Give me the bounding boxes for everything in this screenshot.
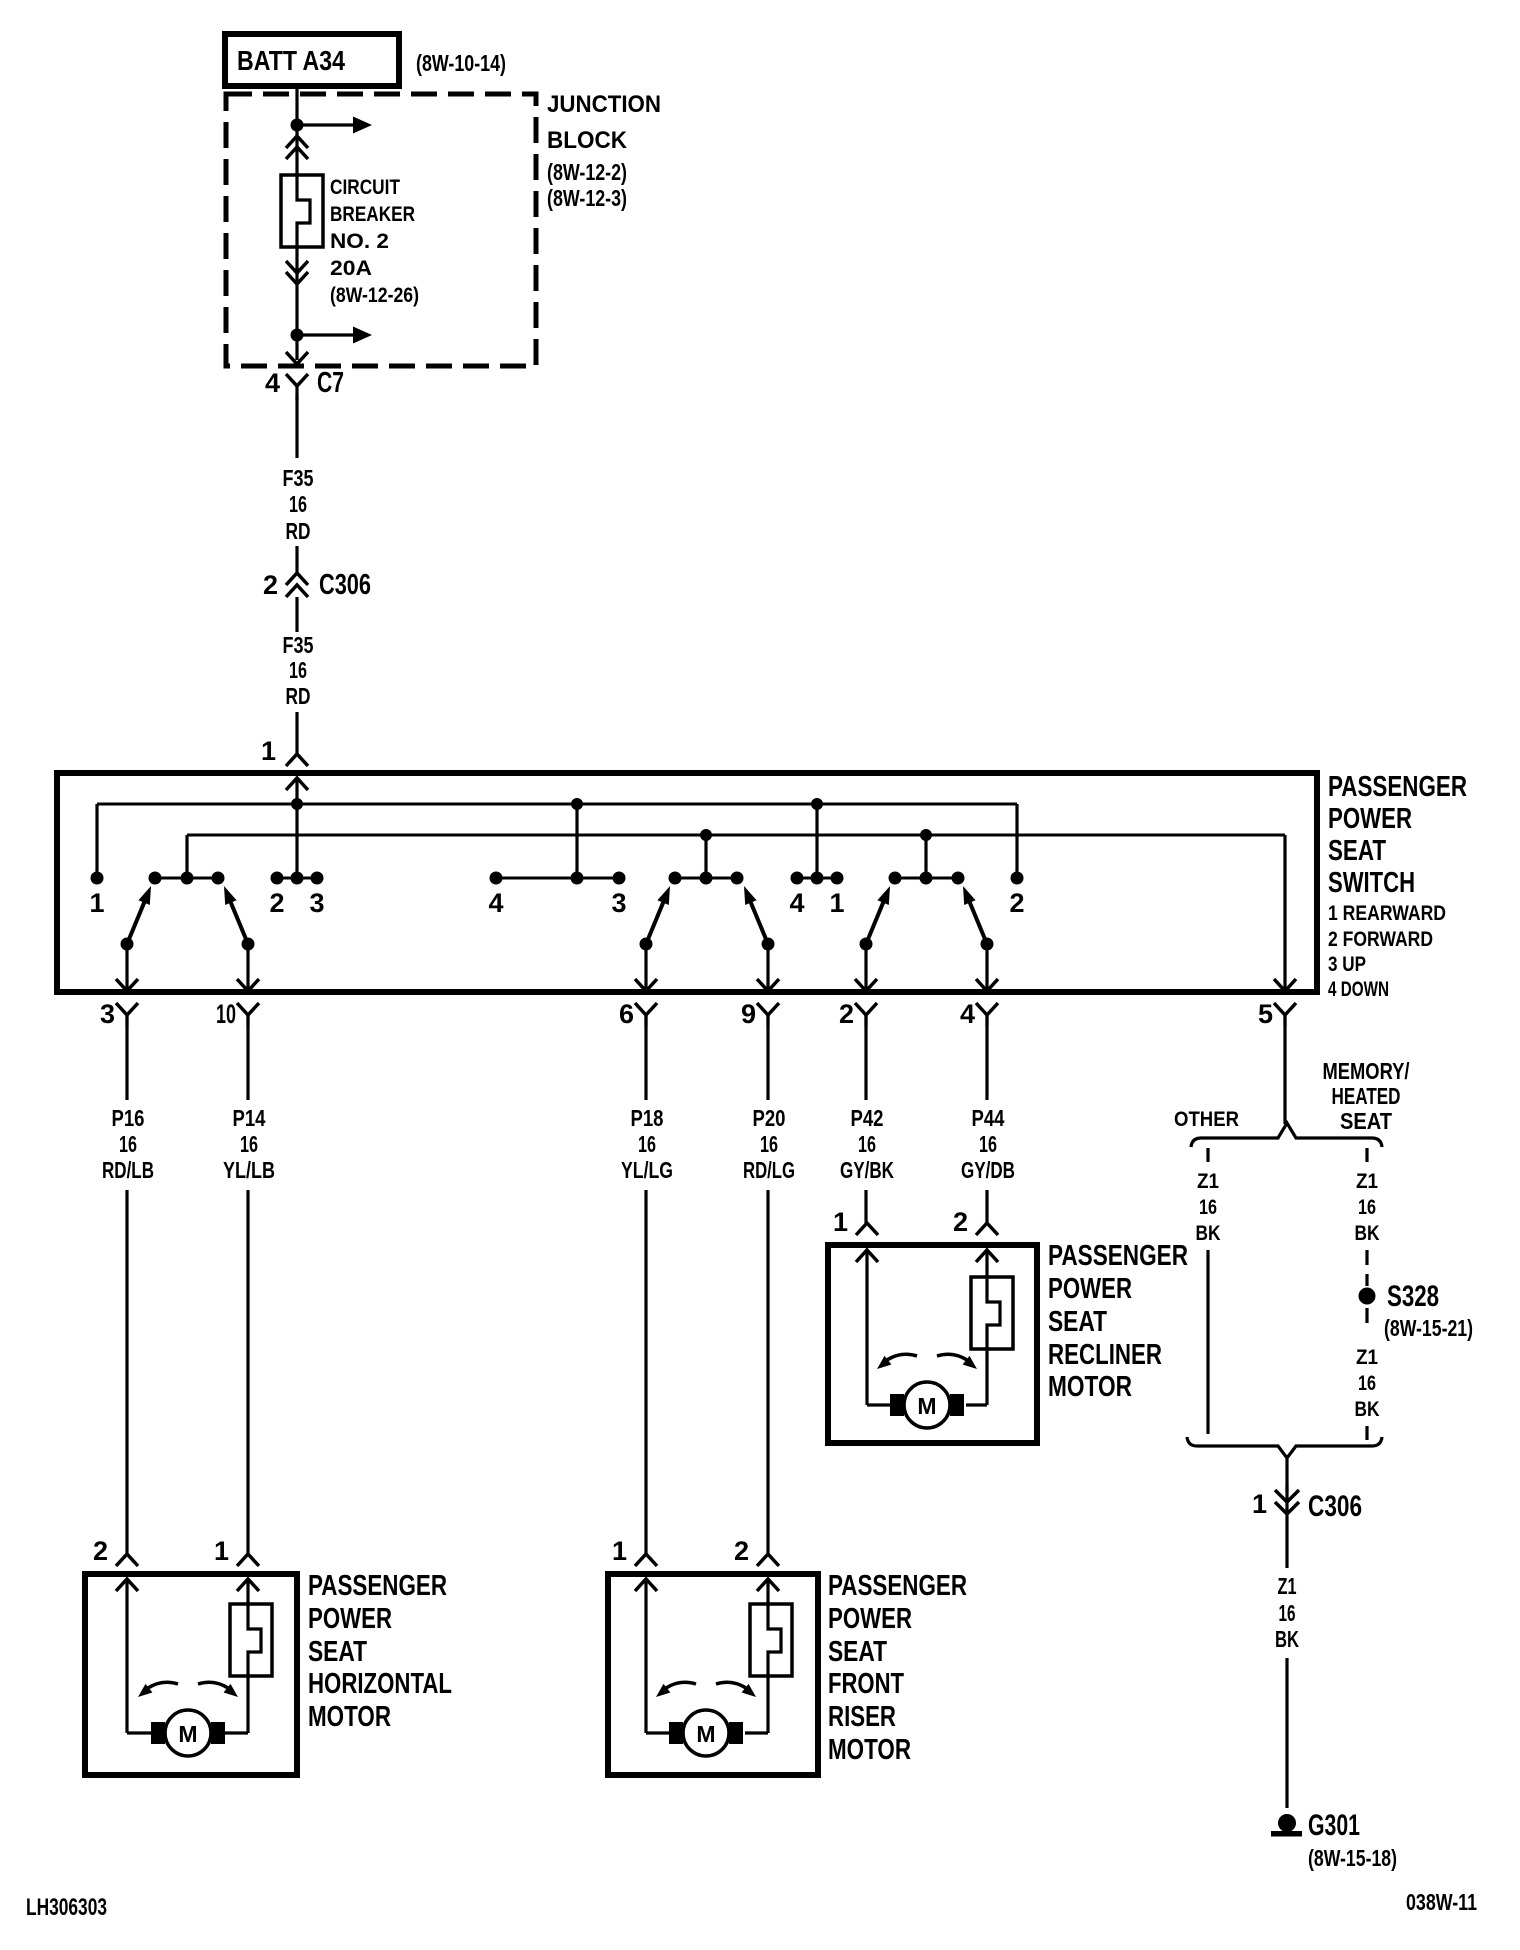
svg-text:BK: BK <box>1355 1398 1380 1421</box>
svg-text:1: 1 <box>89 888 104 918</box>
switch pin 10 exit chevron <box>237 979 259 991</box>
wire switch pin 5 to splice brace <box>1283 1015 1286 1124</box>
svg-text:2 FORWARD: 2 FORWARD <box>1328 928 1433 951</box>
wire wiper to switch pin 10 <box>246 948 249 990</box>
svg-text:2: 2 <box>263 570 278 600</box>
horizontal motor pin 1 entry chevron <box>237 1579 259 1591</box>
recliner motor rotation arrows <box>887 1354 917 1360</box>
svg-text:5: 5 <box>1258 999 1273 1029</box>
svg-text:SEAT: SEAT <box>308 1636 367 1668</box>
svg-text:1: 1 <box>829 888 844 918</box>
battery feed box BATT A34 <box>225 34 399 86</box>
horizontal motor M <box>165 1710 211 1756</box>
connector C306 pin 1 chevrons (down) <box>1275 1490 1299 1502</box>
svg-text:(8W-10-14): (8W-10-14) <box>416 50 506 76</box>
wire pin1 to bus A <box>295 778 298 878</box>
wire brace to C306 <box>1285 1458 1288 1492</box>
svg-text:M: M <box>178 1721 197 1747</box>
svg-text:OTHER: OTHER <box>1174 1108 1239 1131</box>
wire P14 16 YL/LB (upper segment) <box>246 1015 249 1100</box>
svg-text:BREAKER: BREAKER <box>330 203 415 226</box>
switch pin 3 fork <box>116 1003 138 1015</box>
svg-text:P44: P44 <box>972 1105 1005 1131</box>
svg-text:PASSENGER: PASSENGER <box>1328 771 1467 803</box>
svg-text:JUNCTION: JUNCTION <box>547 91 661 118</box>
wire Z1 16 BK (memory branch, dashed stub) <box>1365 1148 1368 1162</box>
wire P18 16 YL/LG (upper segment) <box>644 1015 647 1100</box>
svg-text:2: 2 <box>1009 888 1024 918</box>
svg-text:Z1: Z1 <box>1278 1573 1297 1599</box>
wire P42 16 GY/BK (upper segment) <box>864 1015 867 1100</box>
riser motor thermal breaker <box>750 1604 792 1676</box>
svg-text:3: 3 <box>309 888 324 918</box>
svg-text:(8W-15-21): (8W-15-21) <box>1384 1315 1473 1341</box>
horizontal motor pin 2 entry chevron <box>116 1579 138 1591</box>
svg-text:(8W-12-26): (8W-12-26) <box>330 284 419 307</box>
svg-text:16: 16 <box>119 1131 137 1157</box>
svg-text:16: 16 <box>289 491 307 517</box>
svg-text:YL/LG: YL/LG <box>621 1157 673 1183</box>
svg-text:(8W-12-2): (8W-12-2) <box>547 159 627 185</box>
svg-text:20A: 20A <box>330 257 372 280</box>
recliner connector pin 1 fork <box>856 1223 878 1235</box>
circuit breaker No. 2 20A <box>281 175 323 247</box>
node: bus A / feed junction <box>291 798 303 810</box>
svg-text:POWER: POWER <box>1328 803 1412 835</box>
svg-text:BK: BK <box>1275 1626 1299 1652</box>
riser moving-contact strip <box>675 877 737 880</box>
svg-text:2: 2 <box>93 1536 108 1566</box>
svg-text:16: 16 <box>1199 1196 1217 1219</box>
riser motor pin 2 entry chevron <box>757 1579 779 1591</box>
wire Z1 16 BK to ground (upper) <box>1285 1516 1288 1568</box>
switch pin 4 fork <box>976 1003 998 1015</box>
svg-text:2: 2 <box>953 1207 968 1237</box>
node: bus B junction (riser contacts) <box>700 829 712 841</box>
connector C7 pin 4 fork <box>286 374 308 386</box>
svg-text:Z1: Z1 <box>1356 1170 1378 1193</box>
svg-text:16: 16 <box>760 1131 778 1157</box>
svg-text:MEMORY/: MEMORY/ <box>1323 1058 1410 1084</box>
svg-text:RD/LB: RD/LB <box>102 1157 154 1183</box>
switch wiper arm pin 6 <box>640 938 653 951</box>
svg-text:C306: C306 <box>319 569 371 601</box>
svg-text:MOTOR: MOTOR <box>308 1701 391 1733</box>
wire wiper to switch pin 6 <box>644 948 647 990</box>
svg-text:(8W-15-18): (8W-15-18) <box>1308 1845 1397 1871</box>
switch pin 9 fork <box>757 1003 779 1015</box>
svg-text:6: 6 <box>619 999 634 1029</box>
dashed stub to merge brace <box>1365 1426 1368 1440</box>
svg-text:9: 9 <box>741 999 756 1029</box>
svg-text:LH306303: LH306303 <box>26 1894 107 1921</box>
svg-text:2: 2 <box>269 888 284 918</box>
horizontal motor right wire <box>246 1579 249 1604</box>
svg-text:4 DOWN: 4 DOWN <box>1328 978 1389 1001</box>
node: feed splice (bottom) <box>291 329 304 342</box>
contacts 2-3 strip (horizontal section) <box>277 877 317 880</box>
node: bus B junction (recliner contacts) <box>920 829 932 841</box>
svg-text:POWER: POWER <box>308 1603 392 1635</box>
svg-text:MOTOR: MOTOR <box>1048 1371 1132 1403</box>
switch pin 9 exit chevron <box>757 979 779 991</box>
bus B left drop (horizontal group) <box>185 835 188 878</box>
passenger power seat recliner motor box <box>828 1245 1037 1443</box>
switch pin 3 exit chevron <box>116 979 138 991</box>
svg-text:SEAT: SEAT <box>828 1636 887 1668</box>
node: feed splice (top) <box>291 119 304 132</box>
contact 1 (REARWARD feed) <box>91 872 104 885</box>
switch internal bus B <box>187 834 1285 837</box>
svg-text:POWER: POWER <box>828 1603 912 1635</box>
svg-text:SEAT: SEAT <box>1048 1306 1107 1338</box>
horizontal motor connector pin 2 fork <box>116 1554 138 1566</box>
svg-text:(8W-12-3): (8W-12-3) <box>547 185 627 211</box>
wire P16 (lower segment) <box>125 1190 128 1554</box>
bus B right drop to pin 5 <box>1283 835 1286 990</box>
ground G301 <box>1278 1814 1296 1832</box>
recliner connector pin 2 fork <box>976 1223 998 1235</box>
svg-text:Z1: Z1 <box>1356 1346 1378 1369</box>
recliner pin 2 entry chevron <box>976 1250 998 1262</box>
svg-text:RD: RD <box>286 518 311 544</box>
junction block internal connector chevrons (up) <box>286 136 308 148</box>
svg-text:HORIZONTAL: HORIZONTAL <box>308 1668 452 1700</box>
bus A right drop to contact 2 <box>1015 804 1018 872</box>
svg-text:RD/LG: RD/LG <box>743 1157 795 1183</box>
wire Z1 16 BK to ground (lower) <box>1285 1658 1288 1808</box>
svg-text:G301: G301 <box>1308 1809 1360 1842</box>
svg-text:P14: P14 <box>233 1105 266 1131</box>
riser motor left wire <box>644 1579 647 1733</box>
svg-text:F35: F35 <box>283 632 314 658</box>
passenger power seat horizontal motor box <box>85 1574 297 1775</box>
svg-text:1: 1 <box>612 1536 627 1566</box>
bus A left drop to contact 1 <box>95 804 98 872</box>
switch pin 2 exit chevron <box>855 979 877 991</box>
junction block (dashed boundary) <box>226 94 536 366</box>
svg-text:BK: BK <box>1355 1222 1380 1245</box>
wire P20 16 RD/LG (upper segment) <box>766 1015 769 1100</box>
svg-text:NO. 2: NO. 2 <box>330 230 389 253</box>
svg-text:F35: F35 <box>283 465 314 491</box>
recliner thermal breaker <box>971 1277 1013 1349</box>
riser motor connector pin 2 fork <box>757 1554 779 1566</box>
switch pin 4 exit chevron <box>976 979 998 991</box>
contact 2 (FORWARD feed) <box>1011 872 1024 885</box>
svg-text:BATT A34: BATT A34 <box>237 45 345 76</box>
svg-text:3: 3 <box>611 888 626 918</box>
svg-text:16: 16 <box>979 1131 997 1157</box>
horizontal motor left wire <box>125 1579 128 1733</box>
wire Z1 (OTHER branch) <box>1206 1250 1209 1434</box>
splice brace (split to OTHER and MEMORY/HEATED SEAT) <box>1191 1123 1382 1147</box>
riser motor right wire <box>766 1579 769 1604</box>
svg-text:10: 10 <box>216 999 236 1029</box>
switch internal bus A <box>97 803 1017 806</box>
arrow to other junction block circuits (bottom) <box>303 333 353 336</box>
svg-text:3: 3 <box>100 999 115 1029</box>
switch pin 6 fork <box>635 1003 657 1015</box>
svg-text:CIRCUIT: CIRCUIT <box>330 176 400 199</box>
svg-text:16: 16 <box>1358 1372 1376 1395</box>
horizontal motor thermal breaker <box>230 1604 272 1676</box>
svg-text:SEAT: SEAT <box>1328 835 1386 867</box>
svg-text:4: 4 <box>960 999 975 1029</box>
passenger power seat front riser motor box <box>608 1574 818 1775</box>
connector C306 pin 2 chevrons <box>286 573 308 585</box>
wire P14 (lower segment) <box>246 1190 249 1554</box>
svg-text:16: 16 <box>638 1131 656 1157</box>
riser motor rotation arrows <box>666 1682 696 1688</box>
wire P18 (lower segment) <box>644 1190 647 1554</box>
svg-text:16: 16 <box>1358 1196 1376 1219</box>
svg-text:POWER: POWER <box>1048 1273 1132 1305</box>
node: bus A junction (riser group) <box>571 798 583 810</box>
wire wiper to switch pin 4 <box>985 948 988 990</box>
svg-text:RECLINER: RECLINER <box>1048 1339 1162 1371</box>
switch wiper arm pin 9 <box>762 938 775 951</box>
svg-text:1: 1 <box>261 736 276 766</box>
svg-text:3 UP: 3 UP <box>1328 953 1366 976</box>
switch wiper arm pin 10 <box>242 938 255 951</box>
svg-text:RD: RD <box>286 683 311 709</box>
switch pin 1 entry chevron <box>286 778 308 790</box>
svg-text:16: 16 <box>1279 1600 1296 1626</box>
horizontal-motor contact strip <box>155 877 218 880</box>
switch pin 1 fork <box>286 754 308 766</box>
svg-text:FRONT: FRONT <box>828 1668 904 1700</box>
recliner motor right wire <box>985 1250 988 1277</box>
wire from BATT A34 into junction block <box>295 86 298 131</box>
svg-text:SWITCH: SWITCH <box>1328 867 1415 899</box>
switch wiper arm pin 2 <box>860 938 873 951</box>
svg-text:P20: P20 <box>753 1105 786 1131</box>
svg-text:1 REARWARD: 1 REARWARD <box>1328 902 1446 925</box>
svg-text:C306: C306 <box>1308 1490 1362 1523</box>
wire wiper to switch pin 9 <box>766 948 769 990</box>
switch pin 5 exit chevron <box>1274 979 1296 991</box>
svg-text:P42: P42 <box>851 1105 884 1131</box>
svg-text:PASSENGER: PASSENGER <box>828 1570 967 1602</box>
wire from circuit breaker to lower splice <box>295 247 298 360</box>
recliner motor left wire <box>865 1250 868 1405</box>
svg-text:16: 16 <box>240 1131 258 1157</box>
svg-text:P16: P16 <box>112 1105 145 1131</box>
wire P44 16 GY/DB (upper segment) <box>985 1015 988 1100</box>
svg-text:YL/LB: YL/LB <box>223 1157 275 1183</box>
svg-text:1: 1 <box>1252 1489 1267 1519</box>
recliner pin 1 entry chevron <box>856 1250 878 1262</box>
svg-text:2: 2 <box>839 999 854 1029</box>
wire P44 (lower segment) <box>985 1190 988 1223</box>
svg-text:HEATED: HEATED <box>1332 1083 1401 1109</box>
svg-text:PASSENGER: PASSENGER <box>1048 1240 1188 1272</box>
node: bus A junction (recliner group) <box>811 798 823 810</box>
merge brace (to ground lead) <box>1187 1437 1382 1458</box>
recliner motor M <box>904 1382 950 1428</box>
passenger power seat switch box <box>57 773 1317 992</box>
svg-text:2: 2 <box>734 1536 749 1566</box>
svg-text:P18: P18 <box>631 1105 664 1131</box>
svg-text:4: 4 <box>265 368 280 398</box>
horizontal motor connector pin 1 fork <box>237 1554 259 1566</box>
wire below S328 (dashed) <box>1365 1308 1368 1323</box>
riser contacts 4-3 strip <box>496 877 619 880</box>
wire wiper to switch pin 2 <box>864 948 867 990</box>
svg-text:GY/DB: GY/DB <box>961 1157 1015 1183</box>
wire Z1 16 BK (OTHER branch, dashed stub) <box>1206 1148 1209 1162</box>
wire to splice S328 (dashed) <box>1365 1250 1368 1286</box>
arrow to other junction block circuits (top) <box>303 123 353 126</box>
switch pin 6 exit chevron <box>635 979 657 991</box>
svg-text:4: 4 <box>488 888 503 918</box>
svg-text:RISER: RISER <box>828 1701 896 1733</box>
svg-text:S328: S328 <box>1387 1280 1439 1313</box>
svg-text:Z1: Z1 <box>1197 1170 1219 1193</box>
svg-text:1: 1 <box>214 1536 229 1566</box>
svg-text:4: 4 <box>789 888 804 918</box>
svg-text:GY/BK: GY/BK <box>840 1157 894 1183</box>
splice S328 <box>1359 1288 1376 1305</box>
wire P42 (lower segment) <box>864 1190 867 1223</box>
riser motor pin 1 entry chevron <box>635 1579 657 1591</box>
recliner contacts 4-1 strip <box>797 877 837 880</box>
wire F35 16 RD (upper segment) <box>295 396 298 458</box>
wire wiper to switch pin 3 <box>125 948 128 990</box>
svg-text:1: 1 <box>833 1207 848 1237</box>
wire F35 to C306 <box>295 546 298 573</box>
svg-text:C7: C7 <box>317 367 344 399</box>
svg-text:M: M <box>696 1721 715 1747</box>
switch pin 10 fork <box>237 1003 259 1015</box>
svg-text:16: 16 <box>858 1131 876 1157</box>
junction block internal connector chevrons (down) <box>286 261 308 273</box>
horizontal motor rotation arrows <box>148 1682 178 1688</box>
switch wiper arm pin 4 <box>981 938 994 951</box>
svg-text:M: M <box>917 1393 936 1419</box>
switch wiper arm pin 3 <box>121 938 134 951</box>
svg-text:SEAT: SEAT <box>1340 1108 1392 1134</box>
switch pin 5 fork <box>1274 1003 1296 1015</box>
svg-text:PASSENGER: PASSENGER <box>308 1570 447 1602</box>
svg-text:16: 16 <box>289 657 307 683</box>
wire P20 (lower segment) <box>766 1190 769 1554</box>
riser motor connector pin 1 fork <box>635 1554 657 1566</box>
svg-text:038W-11: 038W-11 <box>1406 1889 1477 1915</box>
recliner moving-contact strip <box>895 877 958 880</box>
wire F35 into switch pin 1 <box>295 712 298 754</box>
svg-text:BK: BK <box>1196 1222 1221 1245</box>
svg-text:BLOCK: BLOCK <box>547 127 628 154</box>
switch pin 2 fork <box>855 1003 877 1015</box>
svg-text:MOTOR: MOTOR <box>828 1734 911 1766</box>
connector C7 exit chevron <box>286 352 308 364</box>
wire P16 16 RD/LB (upper segment) <box>125 1015 128 1100</box>
riser motor M <box>683 1710 729 1756</box>
